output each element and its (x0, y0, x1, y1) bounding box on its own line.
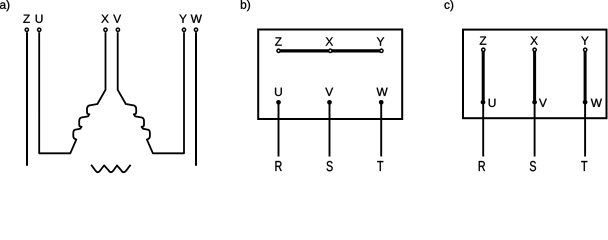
wire V-S (329, 102, 331, 156)
winding coil V-Y (right phase, with wire Y lead and bottom-right wire) (118, 32, 184, 153)
node label W (a) (191, 15, 202, 23)
terminal X (c) (533, 48, 536, 51)
winding coil X-U (left phase, with wire U lead and bottom-left wire) (39, 32, 105, 153)
terminal Z (25, 28, 28, 31)
terminal V (b) (327, 100, 332, 105)
node label Y (a) (179, 15, 186, 23)
node label W (c) (591, 99, 602, 107)
wire Z lead (26, 32, 28, 166)
supply phase label T (c) (581, 161, 587, 171)
wire U-R (c) (482, 102, 484, 156)
supply phase label R (c) (479, 161, 485, 171)
terminal U (b) (276, 100, 281, 105)
terminal V (c) (532, 100, 537, 105)
terminal Y (b) (380, 49, 383, 52)
terminal X (104, 28, 107, 31)
terminal box b (258, 30, 402, 120)
supply phase label S (c) (530, 161, 536, 171)
node label X (b) (326, 37, 333, 45)
node label V (a) (113, 15, 121, 23)
node label Z (b) (275, 37, 282, 45)
node label V (b) (325, 88, 333, 96)
terminal W (b) (379, 100, 384, 105)
terminal W (194, 28, 197, 31)
winding coil bottom (third phase, partially shown) (91, 165, 130, 172)
node label Y (c) (581, 37, 588, 45)
terminal Z (b) (277, 49, 280, 52)
node label Y (b) (377, 37, 384, 45)
terminal box c (463, 30, 607, 119)
supply phase label T (b) (377, 161, 383, 171)
node label U (c) (489, 99, 496, 107)
figure label a) (0, 0, 9, 11)
terminal W (c) (583, 100, 588, 105)
terminal U (38, 28, 41, 31)
terminal Z (c) (482, 48, 485, 51)
terminal U (c) (481, 100, 486, 105)
node label X (c) (530, 37, 537, 45)
shorting bar Z-X-Y (279, 49, 382, 52)
wire V-S (c) (534, 102, 536, 156)
wire W-T (c) (584, 102, 586, 156)
terminal Y (182, 28, 185, 31)
terminal Y (c) (584, 48, 587, 51)
node label V (c) (539, 99, 547, 107)
node label W (b) (377, 88, 388, 96)
wire W lead (195, 32, 197, 166)
node label U (a) (36, 15, 43, 23)
wire U-R (278, 102, 280, 156)
shorting bar X-V (533, 50, 536, 102)
node label X (a) (101, 15, 108, 23)
shorting bar Y-W (584, 50, 587, 102)
wire W-T (380, 102, 382, 156)
terminal V (116, 28, 119, 31)
figure label b) (241, 0, 250, 11)
supply phase label S (b) (327, 161, 333, 171)
supply phase label R (b) (275, 161, 281, 171)
figure label c) (444, 0, 453, 11)
node label U (b) (275, 88, 282, 96)
terminal X (b) (329, 49, 332, 52)
node label Z (c) (480, 37, 487, 45)
node label Z (a) (23, 15, 30, 23)
shorting bar Z-U (482, 50, 485, 102)
